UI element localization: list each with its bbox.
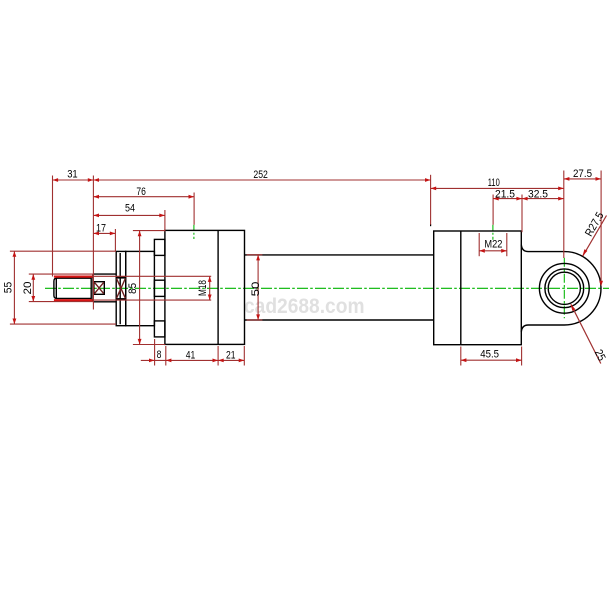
arrows 85 [138, 231, 142, 237]
arrowhead R27.5 [582, 249, 587, 256]
svg-text:76: 76 [136, 186, 146, 198]
arrows 31 [53, 178, 59, 182]
dim line 20 [32, 274, 34, 302]
dim line 27.5 [564, 178, 601, 180]
leader R27.5 [583, 216, 607, 257]
rod shoulder top [93, 273, 116, 275]
arrows M18 [208, 276, 212, 282]
rod shoulder bottom [93, 301, 116, 303]
ext line 8/41 [165, 346, 167, 366]
thread crest bottom (red thick) [54, 299, 93, 301]
arrowhead 25 [571, 304, 576, 311]
cylinder tube top [245, 254, 434, 256]
ext line M22 left [478, 233, 480, 256]
dim line 45.5 [461, 359, 522, 361]
middle tab [154, 280, 165, 296]
ext line 76 right [193, 193, 195, 225]
dim line M18 [209, 276, 211, 300]
dim line 85 [139, 231, 141, 345]
gland plate [116, 251, 126, 325]
arrows 76 [93, 195, 99, 199]
ext line at rod end left [52, 176, 54, 277]
GROUP: black part geometry [54, 230, 601, 344]
dim line M22 [479, 250, 507, 252]
svg-text:20: 20 [22, 282, 34, 295]
ext line eye center [563, 171, 565, 259]
tick at 252 ext end [430, 224, 432, 226]
svg-text:27.5: 27.5 [573, 168, 592, 180]
rear cap block [434, 231, 522, 345]
dim line 8 41 21 [141, 359, 245, 361]
svg-text:85: 85 [127, 283, 139, 294]
gland box X diagonals [117, 278, 126, 298]
GROUP: dimension texts [3, 168, 608, 363]
GROUP: red dimension lines [10, 171, 607, 366]
thread crest top (red thick) [54, 276, 93, 278]
arrow 27.5 ext end [599, 281, 603, 287]
eye outer ring circle [539, 263, 589, 313]
arrows 32.5 [522, 197, 528, 201]
ext line 50 bottom [247, 319, 263, 321]
dim line 50 [257, 255, 259, 320]
arrows 252 [93, 178, 99, 182]
top tab [154, 239, 165, 255]
arrow 8 outside [149, 359, 155, 363]
arrows 110 [431, 187, 437, 191]
svg-text:8: 8 [157, 349, 162, 361]
ext line 20 bottom [29, 301, 93, 303]
ext line 21 right [243, 346, 245, 366]
ext line M18 bottom [93, 299, 212, 301]
eye vertical centerline [563, 258, 565, 319]
dim line 31 [53, 179, 94, 181]
dim line 17 [93, 232, 115, 234]
ext line 252 right [430, 175, 432, 225]
ext line 54 right [164, 210, 166, 231]
ext line M22 right [506, 233, 508, 256]
leader 25 [571, 304, 601, 363]
nut X diagonals [94, 282, 103, 293]
svg-text:252: 252 [253, 169, 268, 181]
svg-text:50: 50 [250, 282, 262, 297]
cylinder tube bottom [245, 319, 434, 321]
clevis eye lobe [521, 245, 601, 332]
flange plate [126, 251, 155, 325]
GROUP: red arrows [13, 177, 604, 362]
arrows 20 [31, 274, 35, 280]
ext line 27.5 right [600, 171, 602, 285]
svg-text:54: 54 [125, 203, 135, 215]
svg-text:21: 21 [226, 350, 236, 362]
ext line 55 top [10, 250, 116, 252]
svg-text:55: 55 [3, 282, 15, 293]
ext line 21.5/32.5 junction [521, 195, 523, 233]
front head block [165, 230, 245, 344]
dim line 55 [13, 251, 15, 324]
rod thread outline [54, 278, 91, 298]
dim line 54 [93, 214, 164, 216]
ext line at thread end [92, 176, 94, 310]
gland thread box top [116, 277, 126, 279]
arrows 45.5 [461, 358, 467, 362]
svg-text:M18: M18 [197, 280, 209, 296]
arrows 17 [93, 232, 99, 236]
svg-text:41: 41 [186, 350, 196, 362]
gland thread box bottom [116, 298, 126, 300]
arrows 54 [93, 214, 99, 218]
svg-text:17: 17 [96, 223, 106, 235]
ext line 20 top [29, 273, 93, 275]
ext line 85 bottom [133, 344, 165, 346]
svg-text:cad2688.com: cad2688.com [244, 294, 365, 318]
ext line 17 right [114, 229, 116, 251]
arrows 21.5 [493, 197, 499, 201]
ext line 55 bottom [10, 323, 116, 325]
arrows 41 [166, 359, 172, 363]
rod thread end line [90, 277, 92, 300]
svg-text:M22: M22 [484, 239, 502, 251]
rod shoulder start line [92, 274, 94, 302]
ext line 50 top [247, 254, 263, 256]
svg-text:110: 110 [488, 177, 500, 189]
svg-text:21.5: 21.5 [495, 188, 515, 200]
rod thread left inner edge [55, 278, 57, 298]
ext line 41/21 [217, 346, 219, 366]
eye middle circle [545, 269, 584, 308]
ext line 8 left [154, 339, 156, 366]
bottom tab [154, 321, 165, 337]
ext line M18 top [93, 275, 212, 277]
rear port centerline [492, 225, 494, 240]
svg-text:32.5: 32.5 [528, 188, 548, 200]
ext line 45.5 left [460, 347, 462, 366]
dim line 76 [93, 196, 194, 198]
dim line 252 [93, 179, 430, 181]
ext line 45.5 right [521, 347, 523, 366]
arrows 21 [218, 359, 224, 363]
svg-text:31: 31 [67, 169, 78, 181]
gland chamfer line [119, 253, 121, 324]
svg-text:45.5: 45.5 [480, 349, 499, 361]
nut section box [94, 282, 104, 295]
rear block divider [460, 231, 462, 345]
arrows 55 [13, 251, 17, 257]
front block divider [217, 230, 219, 344]
dim line 110 [431, 187, 564, 189]
arrows M22 [479, 249, 485, 253]
arrows 27.5 [564, 177, 570, 181]
arrows 50 [256, 255, 260, 261]
ext line 85 top [133, 230, 165, 232]
eye bore circle [548, 272, 580, 304]
front port centerline [193, 225, 195, 239]
ext line 21.5 left [492, 195, 494, 225]
main horizontal centerline [45, 287, 609, 289]
dim line 21.5 and 32.5 [493, 198, 564, 200]
